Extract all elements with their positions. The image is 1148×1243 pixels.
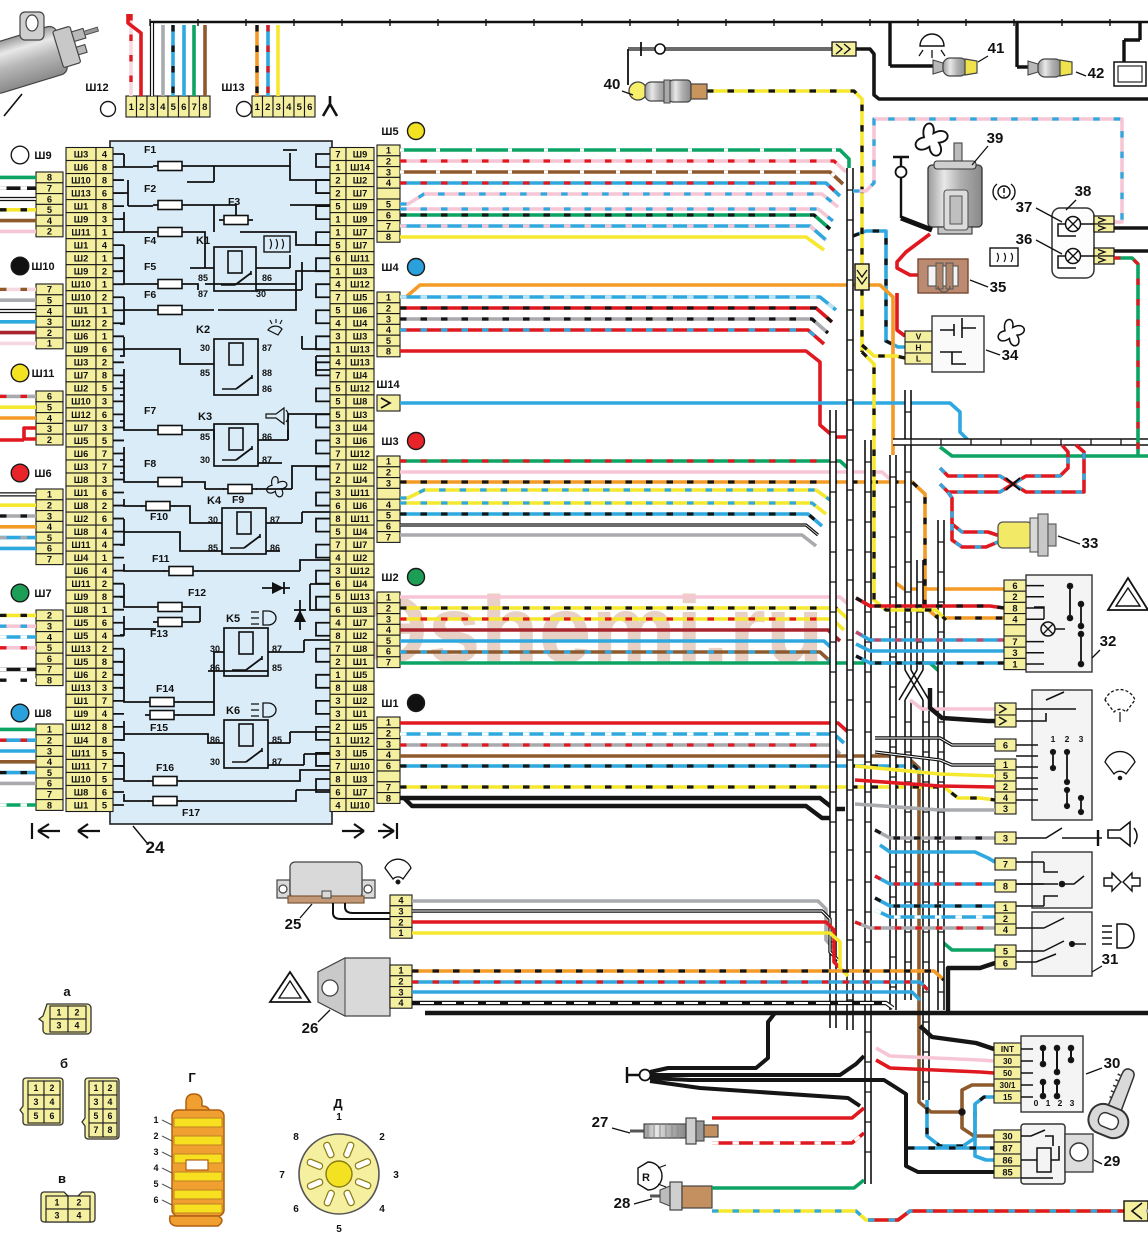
svg-text:3: 3	[335, 332, 340, 342]
svg-text:34: 34	[1002, 347, 1019, 364]
svg-text:L: L	[916, 354, 921, 364]
wire Ш7.4	[0, 635, 36, 639]
svg-text:5: 5	[47, 296, 52, 306]
31 two-pin connector	[995, 703, 1016, 727]
label 32	[1092, 633, 1116, 658]
svg-text:7: 7	[335, 761, 340, 771]
svg-text:3: 3	[335, 436, 340, 446]
svg-text:3: 3	[34, 1097, 39, 1107]
wire Ш6.3	[0, 514, 36, 518]
svg-text:Ш11: Ш11	[32, 368, 55, 380]
svg-text:7: 7	[1012, 637, 1017, 647]
wires into 31 wiper pins	[875, 738, 995, 745]
svg-text:39: 39	[987, 130, 1004, 147]
svg-text:8: 8	[293, 1132, 299, 1143]
svg-text:1: 1	[47, 339, 52, 349]
connector Ш12 label	[85, 82, 115, 117]
svg-text:7: 7	[386, 658, 391, 668]
svg-text:88: 88	[262, 368, 272, 378]
svg-text:5: 5	[335, 397, 340, 407]
svg-text:1: 1	[335, 227, 340, 237]
svg-text:Ш9: Ш9	[353, 149, 368, 159]
wire Ш3.3 orange/black to 32-4	[400, 482, 1004, 618]
svg-text:15: 15	[1003, 1093, 1013, 1102]
block 24 internal wiring	[120, 150, 330, 801]
svg-text:6: 6	[108, 1111, 113, 1121]
svg-text:7: 7	[335, 449, 340, 459]
svg-text:Ш7: Ш7	[74, 423, 89, 433]
svg-text:Ш9: Ш9	[74, 709, 89, 719]
wire Ш2.1 pink	[400, 597, 850, 606]
svg-text:2: 2	[47, 501, 52, 511]
svg-text:K4: K4	[207, 495, 222, 507]
svg-text:Ш4: Ш4	[353, 579, 368, 589]
wire Ш3.7 gray	[400, 535, 816, 546]
svg-text:7: 7	[47, 790, 52, 800]
svg-text:7: 7	[47, 665, 52, 675]
wire Ш7.3	[0, 624, 36, 628]
wire Ш6.1 white	[0, 492, 36, 496]
wire Ш4.8 red	[400, 351, 846, 437]
label 30	[1086, 1055, 1120, 1074]
svg-text:3: 3	[153, 1147, 158, 1157]
svg-text:Ш2: Ш2	[74, 254, 89, 264]
svg-text:26: 26	[302, 1020, 319, 1037]
svg-text:1: 1	[47, 490, 52, 500]
svg-text:Ш13: Ш13	[350, 358, 370, 368]
legend Г heater coil	[153, 1094, 224, 1226]
svg-text:6: 6	[102, 514, 107, 524]
svg-text:6: 6	[335, 501, 340, 511]
wire orange/black from 26	[412, 971, 944, 980]
svg-text:Ш14: Ш14	[350, 162, 371, 172]
svg-text:Ш7: Ш7	[34, 588, 51, 600]
svg-text:5: 5	[386, 511, 391, 521]
svg-text:5: 5	[102, 436, 107, 446]
relay 29 body	[1021, 1124, 1093, 1184]
svg-text:5: 5	[47, 205, 52, 215]
label F11	[152, 553, 170, 565]
svg-text:Ш9: Ш9	[74, 592, 89, 602]
wire blue/black to 29-87	[908, 1146, 994, 1150]
wire Ш5.8 yellow	[400, 237, 824, 250]
wire Ш12.4 gray	[161, 25, 165, 96]
fuse F10	[141, 502, 175, 511]
svg-text:30: 30	[200, 343, 210, 353]
svg-text:H: H	[915, 343, 921, 353]
svg-text:5: 5	[335, 410, 340, 420]
svg-text:Ш5: Ш5	[74, 657, 89, 667]
connector Ш4 label	[381, 259, 424, 276]
fuse F12	[153, 603, 187, 612]
svg-text:Ш1: Ш1	[74, 306, 89, 316]
wire Ш5.4 blue/red	[400, 183, 840, 196]
wire blue to 31-7	[880, 845, 995, 862]
motor 39	[928, 143, 982, 234]
wire white from 25	[412, 911, 838, 960]
svg-text:8: 8	[335, 514, 340, 524]
svg-text:Ш11: Ш11	[71, 227, 90, 237]
svg-text:85: 85	[200, 432, 210, 442]
lamp 40 bulb assembly	[629, 80, 707, 103]
wire red from 27	[712, 1108, 864, 1118]
svg-text:Ш1: Ш1	[353, 657, 368, 667]
wire thick black continues right	[948, 1011, 1148, 1015]
svg-text:3: 3	[386, 478, 391, 488]
svg-text:Ш4: Ш4	[353, 475, 368, 485]
wire top power bus	[150, 19, 1148, 26]
svg-text:1: 1	[102, 280, 107, 290]
svg-text:Ш1: Ш1	[74, 240, 89, 250]
legend b connector 8pin	[82, 1078, 119, 1139]
svg-text:F5: F5	[144, 261, 156, 273]
label 31	[1092, 951, 1118, 972]
fuse F8	[153, 478, 187, 487]
svg-text:Ш7: Ш7	[353, 188, 368, 198]
fuse F2	[153, 201, 187, 210]
label F12	[188, 587, 206, 599]
svg-text:7: 7	[335, 149, 340, 159]
fuse F1	[153, 162, 187, 171]
svg-text:F11: F11	[152, 553, 170, 565]
svg-text:2: 2	[335, 657, 340, 667]
svg-text:F8: F8	[144, 458, 156, 470]
wire red/blue overlay to connector	[868, 1211, 1124, 1220]
wire Ш8.1	[0, 728, 36, 732]
wire Ш3.5 blue/black	[400, 514, 822, 526]
svg-text:5: 5	[335, 306, 340, 316]
wire black to 30 INT	[920, 1026, 994, 1049]
svg-text:8: 8	[335, 683, 340, 693]
connector Ш11 label	[11, 364, 54, 382]
svg-text:Ш6: Ш6	[74, 670, 89, 680]
svg-text:4: 4	[102, 709, 108, 719]
svg-text:7: 7	[47, 184, 52, 194]
svg-text:Ш10: Ш10	[71, 293, 91, 303]
wire Ш11.2 red	[0, 438, 24, 442]
headlight icon near 31	[1102, 924, 1134, 948]
svg-text:4: 4	[335, 358, 341, 368]
svg-text:30: 30	[1003, 1057, 1013, 1066]
svg-text:6: 6	[181, 102, 186, 113]
label 42	[1076, 65, 1104, 82]
svg-text:K6: K6	[226, 705, 240, 717]
wire green/red from 38	[1114, 258, 1138, 456]
svg-text:3: 3	[386, 614, 391, 624]
svg-text:7: 7	[386, 221, 391, 231]
svg-text:Ш7: Ш7	[353, 227, 368, 237]
svg-text:INT: INT	[1001, 1045, 1014, 1054]
svg-text:85: 85	[1002, 1167, 1012, 1177]
svg-text:в: в	[58, 1171, 66, 1186]
label F16	[156, 762, 174, 774]
wire red/white from 27	[712, 1133, 864, 1143]
svg-text:4: 4	[335, 319, 341, 329]
svg-text:Ш1: Ш1	[74, 696, 89, 706]
svg-text:3: 3	[102, 475, 107, 485]
fuse F11	[164, 567, 198, 576]
svg-text:Ш6: Ш6	[74, 162, 89, 172]
wire yellow from 25	[412, 933, 848, 976]
svg-text:Ш11: Ш11	[71, 761, 90, 771]
svg-text:Ш9: Ш9	[34, 150, 51, 162]
label F2	[144, 183, 156, 195]
harness loom A	[847, 168, 853, 1030]
svg-text:6: 6	[47, 654, 52, 664]
svg-text:1: 1	[336, 1112, 342, 1123]
wire blue/black loom to 34-H	[853, 231, 905, 347]
svg-text:0: 0	[1034, 1098, 1039, 1108]
svg-text:6: 6	[335, 605, 340, 615]
svg-text:7: 7	[102, 761, 107, 771]
svg-text:42: 42	[1088, 65, 1105, 82]
svg-text:2: 2	[102, 267, 107, 277]
fuse F7	[153, 426, 187, 435]
svg-text:2: 2	[102, 293, 107, 303]
wire red from 25	[412, 922, 842, 970]
svg-text:25: 25	[285, 916, 302, 933]
wire Ш12.3 white	[150, 23, 154, 96]
wire Ш2.6 brown/blue	[400, 652, 832, 663]
svg-text:3: 3	[102, 683, 107, 693]
harness loom F upper	[917, 560, 923, 670]
switch 32 body	[1026, 575, 1092, 672]
svg-text:5: 5	[47, 643, 52, 653]
component 26 body	[318, 958, 390, 1016]
svg-text:Ш2: Ш2	[74, 384, 89, 394]
wire black 38 top	[1114, 226, 1148, 229]
svg-text:38: 38	[1075, 183, 1092, 200]
svg-text:Ш6: Ш6	[74, 566, 89, 576]
svg-text:1: 1	[386, 146, 391, 156]
svg-text:Ш2: Ш2	[381, 572, 398, 584]
svg-text:Ш4: Ш4	[353, 371, 368, 381]
svg-text:2: 2	[77, 1198, 82, 1208]
svg-text:4: 4	[102, 566, 108, 576]
svg-text:Ш8: Ш8	[74, 501, 89, 511]
svg-text:Ш6: Ш6	[34, 468, 51, 480]
svg-text:8: 8	[386, 793, 391, 803]
svg-text:K3: K3	[198, 411, 212, 423]
svg-text:5: 5	[335, 384, 340, 394]
wire Ш8.6	[0, 782, 36, 786]
svg-text:30/1: 30/1	[1000, 1081, 1016, 1090]
svg-text:6: 6	[1003, 958, 1008, 968]
svg-text:Ш12: Ш12	[350, 384, 370, 394]
svg-text:2: 2	[1012, 592, 1017, 602]
svg-text:6: 6	[102, 488, 107, 498]
svg-text:8: 8	[102, 201, 107, 211]
svg-text:7: 7	[279, 1170, 285, 1181]
wire gray/black to 31 horn	[875, 830, 995, 838]
fuse F13	[153, 618, 187, 627]
label F15	[150, 722, 168, 734]
svg-text:4: 4	[386, 178, 392, 188]
svg-text:2: 2	[102, 644, 107, 654]
label 41	[978, 40, 1004, 62]
svg-text:2: 2	[386, 157, 391, 167]
svg-text:2: 2	[335, 188, 340, 198]
svg-text:4: 4	[47, 413, 53, 423]
wire Ш7.5	[0, 646, 36, 650]
svg-text:4: 4	[335, 618, 341, 628]
svg-text:7: 7	[335, 540, 340, 550]
svg-text:41: 41	[988, 40, 1005, 57]
wire Ш10.4 white	[0, 309, 36, 313]
wire Ш8.2	[0, 738, 36, 742]
svg-text:1: 1	[57, 1008, 62, 1018]
svg-text:5: 5	[1003, 946, 1008, 956]
svg-text:1: 1	[398, 966, 403, 976]
svg-text:3: 3	[335, 748, 340, 758]
svg-text:86: 86	[1002, 1155, 1012, 1165]
component 35	[918, 259, 968, 293]
svg-text:1: 1	[386, 293, 391, 303]
svg-text:Ш4: Ш4	[74, 553, 89, 563]
legend v label	[58, 1171, 66, 1186]
svg-text:Ш6: Ш6	[353, 501, 368, 511]
wire Ш1.7 yellow/black to 31-4	[400, 787, 995, 800]
svg-text:6: 6	[153, 1195, 158, 1205]
inline connector on white line	[832, 42, 856, 56]
svg-text:Ш2: Ш2	[74, 514, 89, 524]
svg-text:3: 3	[1079, 734, 1084, 744]
label F14	[156, 683, 174, 695]
svg-text:28: 28	[614, 1195, 631, 1212]
svg-text:5: 5	[102, 774, 107, 784]
label 26	[302, 1010, 330, 1037]
svg-text:Ш2: Ш2	[353, 553, 368, 563]
svg-text:Г: Г	[188, 1070, 196, 1085]
wire Ш3.4 yellow/blue	[400, 503, 826, 514]
svg-text:Ш12: Ш12	[71, 722, 91, 732]
svg-text:2: 2	[47, 435, 52, 445]
svg-text:32: 32	[1100, 633, 1117, 650]
svg-text:3: 3	[1003, 833, 1008, 843]
svg-text:Ш12: Ш12	[85, 82, 108, 94]
harness loom F lower	[923, 700, 929, 1100]
svg-text:Ш10: Ш10	[350, 800, 370, 810]
sensor 27	[630, 1118, 718, 1144]
end connector bottom right	[1124, 1201, 1148, 1221]
wire blue/red to 31-8	[875, 876, 995, 884]
label 29	[1094, 1153, 1120, 1170]
wire Ш8.4	[0, 760, 36, 764]
wire Ш10.7	[0, 288, 36, 292]
svg-text:4: 4	[153, 1163, 158, 1173]
svg-text:8: 8	[335, 774, 340, 784]
wire Ш6.4	[0, 525, 36, 529]
svg-text:1: 1	[47, 725, 52, 735]
wire to lamp 40 yellow/black	[707, 91, 862, 352]
block 24 left pin stubs	[113, 154, 124, 805]
svg-text:4: 4	[47, 757, 53, 767]
31 wiper pins	[995, 739, 1016, 814]
wire Ш4.3 gray/black	[400, 319, 828, 333]
svg-text:33: 33	[1082, 535, 1099, 552]
block 24 left pin column	[66, 148, 113, 812]
svg-text:Ш5: Ш5	[381, 126, 398, 138]
svg-text:Ш4: Ш4	[353, 527, 368, 537]
ground point fork left	[627, 1067, 651, 1083]
svg-text:Ш11: Ш11	[350, 488, 369, 498]
svg-text:F16: F16	[156, 762, 174, 774]
svg-text:6: 6	[102, 787, 107, 797]
wire Ш12.8 brown	[203, 25, 207, 96]
svg-text:3: 3	[335, 488, 340, 498]
svg-text:1: 1	[386, 593, 391, 603]
svg-text:4: 4	[102, 149, 108, 159]
svg-text:Ш9: Ш9	[74, 267, 89, 277]
wire Ш10.1	[0, 342, 36, 346]
svg-text:85: 85	[272, 663, 282, 673]
wire Ш5.5a pink/blue	[400, 194, 838, 207]
svg-text:2: 2	[1058, 1098, 1063, 1108]
label 34	[986, 347, 1019, 364]
svg-text:5: 5	[94, 1111, 99, 1121]
fuse F3	[219, 216, 253, 225]
svg-text:Ш1: Ш1	[353, 709, 368, 719]
fan icon near 39	[916, 123, 948, 155]
wire yellow/blue from 28	[712, 1211, 1124, 1220]
svg-text:2: 2	[47, 611, 52, 621]
svg-text:5: 5	[386, 200, 391, 210]
svg-text:Ш6: Ш6	[74, 449, 89, 459]
svg-text:7: 7	[335, 293, 340, 303]
svg-text:Ш11: Ш11	[71, 579, 90, 589]
svg-text:Ш3: Ш3	[381, 436, 398, 448]
31 light switch body	[1016, 912, 1092, 976]
harness loom E lower	[905, 700, 911, 1000]
svg-text:Ш3: Ш3	[353, 774, 368, 784]
svg-text:30: 30	[1104, 1055, 1121, 1072]
svg-text:Ш10: Ш10	[350, 761, 370, 771]
wire Ш3.4a yellow/blue	[400, 490, 830, 500]
svg-text:6: 6	[47, 544, 52, 554]
svg-text:5: 5	[47, 768, 52, 778]
svg-text:3: 3	[55, 1211, 60, 1221]
svg-text:Ш11: Ш11	[71, 748, 90, 758]
legend Д label	[333, 1096, 343, 1111]
svg-text:6: 6	[102, 618, 107, 628]
31 horn pin	[995, 832, 1016, 844]
svg-text:2: 2	[386, 604, 391, 614]
svg-text:87: 87	[198, 289, 208, 299]
svg-text:4: 4	[386, 625, 392, 635]
svg-text:Ш12: Ш12	[350, 566, 370, 576]
wire Ш12.6 blue	[182, 25, 186, 96]
wire Ш4.4 red/blue	[400, 330, 824, 344]
wire Ш12.5 blue/black	[171, 25, 175, 96]
svg-text:29: 29	[1104, 1153, 1121, 1170]
svg-text:а: а	[63, 984, 71, 999]
svg-text:Ш13: Ш13	[71, 683, 91, 693]
inline connector on yellow wire	[855, 264, 869, 290]
connector Ш4 pins	[377, 292, 400, 357]
svg-text:6: 6	[102, 410, 107, 420]
svg-text:1: 1	[255, 102, 261, 113]
svg-text:5: 5	[335, 527, 340, 537]
svg-text:4: 4	[379, 1204, 385, 1215]
component 34 body	[932, 316, 984, 372]
connector Ш10 label	[11, 257, 54, 275]
watermark shemi.ru	[360, 577, 824, 683]
connector Ш5 pins	[377, 145, 400, 242]
svg-text:Ш8: Ш8	[74, 527, 89, 537]
svg-text:2: 2	[47, 227, 52, 237]
svg-text:8: 8	[102, 162, 107, 172]
connector Ш9 label	[11, 146, 51, 164]
